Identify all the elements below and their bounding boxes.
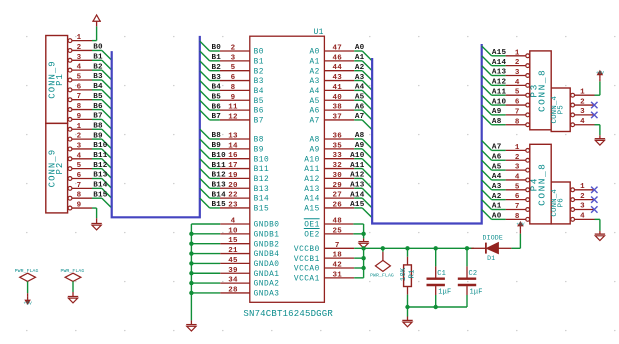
reference U1 [314,28,324,37]
U1 pin number 32 [332,162,342,170]
U1 pin 18 (VCCB1) stub [324,257,354,259]
U1 pin name B0 [254,49,264,57]
connector P5 CONN_4 [551,88,595,132]
U1 pin 36 (A8) stub [324,138,354,140]
U1 pin number 21 [228,247,238,255]
U1 pin name B1 [254,58,264,66]
svg-text:A9: A9 [355,142,365,150]
U1 pin name B8 [254,137,264,145]
svg-text:8: 8 [515,213,520,221]
bus entry B1 (U1 side) [200,51,210,61]
U1 pin 26 (A15) stub [324,207,354,209]
svg-text:B10: B10 [254,156,270,164]
U1 pin name B4 [254,88,264,96]
U1 pin name A7 [309,118,319,126]
label R1 [409,269,417,278]
wire A14 to P3 [492,65,506,67]
U1 pin number 39 [228,267,238,275]
wire A3 to P4 [492,189,506,191]
wire A2 from U1 [354,70,362,72]
power flag PF3 (on VCC line) [370,248,394,278]
net label B15 (U1 side) [212,201,227,209]
wire OE2 [353,233,363,235]
wire B14 to U1 [210,197,220,199]
bus entry A10 (P3 side) [482,95,492,105]
net label B0 (U1 side) [212,44,222,52]
wire A15 from U1 [354,207,362,209]
net label A4 (P4 side) [492,173,502,181]
U1 pin number 48 [332,218,342,226]
ground below PF2 [68,297,78,303]
svg-text:B3: B3 [93,73,103,81]
op-amp U1 body (SN74CBT16245DGGR buffer) [250,36,325,302]
U1 pin 20 (B13) stub [220,187,250,189]
bus entry A11 (U1 side) [362,169,372,179]
svg-text:A9: A9 [309,146,319,154]
U1 pin 23 (B15) stub [220,207,250,209]
bus entry B4 (U1 side) [200,81,210,91]
bus entry A5 (U1 side) [362,100,372,110]
net label A13 (U1 side) [350,181,365,189]
svg-text:6: 6 [515,99,520,107]
U1 pin name B2 [254,68,264,76]
wire A8 from U1 [354,138,362,140]
svg-text:A2: A2 [355,64,365,72]
net label B7 (connector side) [93,113,103,121]
svg-text:44: 44 [332,64,342,72]
U1 pin 39 (GNDA1) stub [220,272,250,274]
wire A4 from U1 [354,89,362,91]
svg-text:B9: B9 [254,146,264,154]
wire A1 to P4 [492,209,506,211]
bus entry B6 (left) [102,110,112,120]
ground below P6 [595,234,605,240]
svg-text:A11: A11 [304,166,320,174]
wire GNDA2 to gnd rail [191,282,220,284]
svg-text:34: 34 [228,277,238,285]
svg-text:31: 31 [332,271,342,279]
svg-text:PWR_FLAG: PWR_FLAG [370,272,394,278]
net label A6 (P4 side) [492,153,502,161]
U1 pin name A11 [304,166,320,174]
U1 pin name GNDA0 [254,261,280,269]
svg-text:A4: A4 [355,84,365,92]
svg-text:5: 5 [77,74,82,82]
svg-text:GNDB4: GNDB4 [254,251,280,259]
svg-text:12: 12 [228,113,238,121]
vcc branch vertical [363,248,365,278]
power flag PF1 (bottom left) [15,268,39,297]
svg-text:B0: B0 [254,49,264,57]
svg-text:48: 48 [332,218,342,226]
svg-text:B8: B8 [212,132,222,140]
U1 pin number 3 [231,54,236,62]
svg-text:B15: B15 [254,206,270,214]
wire P2.9 to ground [92,208,97,223]
junction gnd rail row 28 [189,291,193,295]
net label A12 (U1 side) [350,172,365,180]
U1 pin number 23 [228,201,238,209]
wire B5 from connector [92,99,102,101]
svg-text:A4: A4 [309,88,319,96]
svg-text:+5V: +5V [596,70,605,76]
U1 pin 6 (B3) stub [220,80,250,82]
junction VCCB1 [361,256,365,260]
svg-text:B6: B6 [212,103,222,111]
U1 pin 48 (OE1) stub [324,223,353,225]
net label A9 (P3 side) [492,108,502,116]
svg-text:B7: B7 [93,113,103,121]
wire B1 to U1 [210,60,220,62]
bus entry B15 (left) [102,198,112,208]
svg-text:37: 37 [332,113,342,121]
net label A0 (P4 side) [492,213,502,221]
svg-text:16: 16 [228,152,238,160]
bus entry A14 (P3 side) [482,56,492,66]
wire B1 from connector [92,59,102,61]
svg-text:2: 2 [580,193,585,201]
U1 pin name A15 [304,206,320,214]
U1 pin name GNDA1 [254,271,280,279]
bus entry B0 (U1 side) [200,41,210,51]
net label A10 (U1 side) [350,152,365,160]
wire A9 to P3 [492,114,506,116]
bus entry A5 (P4 side) [482,160,492,170]
svg-text:A15: A15 [304,206,320,214]
U1 pin number 14 [228,142,238,150]
svg-text:C2: C2 [469,270,478,278]
junction C1 bottom [434,305,438,309]
wire A1 from U1 [354,60,362,62]
U1 pin number 9 [231,94,236,102]
svg-text:46: 46 [332,54,342,62]
U1 pin 22 (B14) stub [220,197,250,199]
junction R1 tap [405,246,409,250]
svg-text:B4: B4 [93,83,103,91]
svg-text:3: 3 [77,54,82,62]
wire OE1 [353,223,363,225]
U1 pin 46 (A1) stub [324,60,354,62]
wire B2 to U1 [210,70,220,72]
svg-text:A0: A0 [492,213,502,221]
svg-text:1: 1 [515,49,520,57]
svg-text:OE2: OE2 [304,231,320,239]
wire A10 to P3 [492,104,506,106]
bus entry A6 (U1 side) [362,110,372,120]
net label B0 (connector side) [93,44,103,52]
svg-text:5: 5 [515,183,520,191]
svg-text:19: 19 [228,172,238,180]
svg-text:B7: B7 [212,113,222,121]
svg-text:A7: A7 [492,144,502,152]
U1 pin 42 (VCCA0) stub [324,267,354,269]
svg-text:10: 10 [228,227,238,235]
bus entry A0 (U1 side) [362,51,372,61]
U1 pin number 6 [231,74,236,82]
svg-text:26: 26 [332,201,342,209]
bus entry A4 (P4 side) [482,170,492,180]
wire A12 from U1 [354,177,362,179]
wire B10 from connector [92,148,102,150]
svg-text:A0: A0 [309,49,319,57]
U1 pin 7 (VCCB0) stub [324,247,354,249]
svg-text:B11: B11 [254,166,270,174]
U1 pin name B10 [254,156,270,164]
svg-text:42: 42 [332,262,342,270]
U1 pin 40 (A5) stub [324,99,354,101]
U1 pin name OE2 with overline [304,229,320,240]
ground below R1 [402,320,412,326]
svg-text:3: 3 [580,108,585,116]
U1 pin name VCCA0 [294,266,320,274]
ground below U1 [186,320,196,331]
svg-text:23: 23 [228,201,238,209]
U1 pin number 43 [332,74,342,82]
wire GNDB0 to gnd rail [191,223,220,225]
svg-text:15: 15 [228,237,238,245]
net label B8 (connector side) [93,122,103,130]
U1 pin 4 (GNDB0) stub [220,223,250,225]
net label B6 (connector side) [93,103,103,111]
svg-text:B13: B13 [93,172,108,180]
U1 pin number 46 [332,54,342,62]
U1 pin 8 (B4) stub [220,89,250,91]
svg-text:A8: A8 [309,137,319,145]
net label B10 (U1 side) [212,152,227,160]
svg-text:B15: B15 [93,191,108,199]
junction R1 bottom [405,305,409,309]
bus entry A0 (P4 side) [482,210,492,220]
wire A9 from U1 [354,148,362,150]
connector P2 CONN_9 [46,123,92,213]
svg-text:CONN_8: CONN_8 [537,163,548,206]
svg-text:B0: B0 [212,44,222,52]
U1 pin 41 (A4) stub [324,89,354,91]
svg-text:B10: B10 [93,142,108,150]
wire P5.1 to +5V [595,81,600,95]
net label B4 (U1 side) [212,84,222,92]
net label B5 (U1 side) [212,93,222,101]
U1 pin name A9 [309,146,319,154]
wire A13 to P3 [492,75,506,77]
svg-text:A11: A11 [492,88,507,96]
ground for OE pins [358,238,368,248]
wire D1 anode to +5V [511,234,520,249]
U1 pin name B9 [254,146,264,154]
wire R1 rail to ground [407,307,409,320]
svg-text:A3: A3 [355,74,365,82]
no-connect P5.2 [591,102,597,108]
power symbol +5V (PF1) [23,296,32,306]
svg-text:38: 38 [332,104,342,112]
bus entry A8 (P3 side) [482,115,492,125]
net label B1 (U1 side) [212,54,222,62]
bus entry A3 (P4 side) [482,180,492,190]
svg-text:6: 6 [231,74,236,82]
U1 pin 5 (B2) stub [220,70,250,72]
svg-text:A12: A12 [304,176,320,184]
svg-text:A9: A9 [492,108,502,116]
svg-text:B2: B2 [254,68,264,76]
U1 pin number 36 [332,133,342,141]
U1 pin name B14 [254,196,270,204]
U1 pin 25 (OE2) stub [324,233,353,235]
wire bottom rail [408,306,468,308]
U1 pin number 38 [332,104,342,112]
U1 pin number 2 [231,45,236,53]
U1 pin number 29 [332,182,342,190]
svg-text:B5: B5 [254,98,264,106]
net label A15 (P3 side) [492,49,507,57]
bus entry B11 (U1 side) [200,159,210,169]
svg-text:GNDA2: GNDA2 [254,281,280,289]
svg-text:5: 5 [231,64,236,72]
svg-text:1: 1 [77,123,82,131]
svg-text:A6: A6 [355,103,365,111]
svg-text:A13: A13 [304,186,320,194]
wire B15 to U1 [210,207,220,209]
svg-text:4: 4 [580,213,585,221]
net label A11 (P3 side) [492,88,507,96]
wire A8 to P3 [492,124,506,126]
wire VCC main line [354,247,474,249]
wire A0 to P4 [492,218,506,220]
junction gnd rail row 45 [189,261,193,265]
wire B2 from connector [92,69,102,71]
wire B10 to U1 [210,158,220,160]
wire B13 to U1 [210,187,220,189]
U1 pin number 40 [332,94,342,102]
wire B13 from connector [92,178,102,180]
U1 pin 10 (GNDB1) stub [220,233,250,235]
wire A11 from U1 [354,168,362,170]
U1 pin 16 (B10) stub [220,158,250,160]
U1 pin number 5 [231,64,236,72]
U1 pin number 10 [228,227,238,235]
svg-text:36: 36 [332,133,342,141]
svg-text:A4: A4 [492,173,502,181]
U1 pin 35 (A9) stub [324,148,354,150]
U1 pin number 31 [332,271,342,279]
svg-text:A10: A10 [350,152,365,160]
net label B12 (U1 side) [212,172,227,180]
U1 pin 21 (GNDB4) stub [220,253,250,255]
svg-text:C1: C1 [437,270,446,278]
bus entry B5 (U1 side) [200,90,210,100]
svg-text:A2: A2 [492,193,502,201]
U1 pin number 37 [332,113,342,121]
bus entry B2 (U1 side) [200,61,210,71]
svg-text:B2: B2 [93,63,103,71]
svg-text:A14: A14 [304,196,320,204]
svg-text:B12: B12 [212,172,227,180]
U1 pin number 45 [228,257,238,265]
label C2 value 1uF [470,289,483,297]
net label B3 (connector side) [93,73,103,81]
U1 pin number 8 [231,84,236,92]
wire OE to gnd vertical [363,224,365,238]
svg-text:GNDB0: GNDB0 [254,222,280,230]
U1 pin 30 (A12) stub [324,177,354,179]
U1 pin name B7 [254,118,264,126]
svg-text:33: 33 [332,152,342,160]
U1 pin name B11 [254,166,270,174]
bus entry A9 (P3 side) [482,105,492,115]
label C2 [469,270,478,278]
svg-text:B6: B6 [254,108,264,116]
wire P6.4 to ground [595,219,600,234]
bus entry A8 (U1 side) [362,139,372,149]
svg-text:A1: A1 [309,58,319,66]
svg-text:13: 13 [228,133,238,141]
bus entry B10 (U1 side) [200,149,210,159]
bus entry A12 (P3 side) [482,76,492,86]
svg-text:9: 9 [77,202,82,210]
svg-text:VCCB1: VCCB1 [294,256,320,264]
bus from P1/P2 to U1 [112,36,200,217]
wire A4 to P4 [492,179,506,181]
U1 pin 19 (B12) stub [220,177,250,179]
wire B9 to U1 [210,148,220,150]
net label A6 (U1 side) [355,103,365,111]
svg-text:A12: A12 [350,172,365,180]
bus entry B3 (U1 side) [200,71,210,81]
wire A6 from U1 [354,109,362,111]
wire B0 from connector [92,49,102,51]
svg-text:A15: A15 [350,201,365,209]
net label A0 (U1 side) [355,44,365,52]
svg-text:18: 18 [332,252,342,260]
U1 pin 2 (B0) stub [220,50,250,52]
wire B12 to U1 [210,177,220,179]
svg-text:1μF: 1μF [470,289,483,297]
wire VCCA1 to vcc branch [354,277,363,279]
svg-text:43: 43 [332,74,342,82]
svg-text:7: 7 [515,203,520,211]
svg-text:6: 6 [77,83,82,91]
svg-text:45: 45 [228,257,238,265]
svg-text:1: 1 [580,183,585,191]
U1 pin 34 (GNDA2) stub [220,282,250,284]
wire P5.4 to ground [595,125,600,139]
svg-text:A1: A1 [355,54,365,62]
bus entry A4 (U1 side) [362,90,372,100]
U1 pin name B12 [254,176,270,184]
net label B4 (connector side) [93,83,103,91]
net label A1 (U1 side) [355,54,365,62]
wire GNDB2 to gnd rail [191,243,220,245]
U1 pin number 26 [332,201,342,209]
U1 pin 43 (A3) stub [324,80,354,82]
diode D1 [467,243,511,254]
power flag PF2 (bottom left) [60,268,84,296]
bus entry A9 (U1 side) [362,149,372,159]
svg-text:B3: B3 [212,74,222,82]
U1 pin 38 (A6) stub [324,109,354,111]
svg-text:6: 6 [77,172,82,180]
svg-text:27: 27 [332,192,342,200]
svg-text:A6: A6 [309,108,319,116]
value SN74CBT16245DGGR [243,309,333,319]
wire A3 from U1 [354,80,362,82]
svg-text:B9: B9 [93,132,103,140]
U1 pin name A8 [309,137,319,145]
U1 pin number 4 [231,218,236,226]
svg-text:30: 30 [332,172,342,180]
svg-text:A13: A13 [350,181,365,189]
U1 pin number 47 [332,45,342,53]
junction C2 tap [465,246,469,250]
